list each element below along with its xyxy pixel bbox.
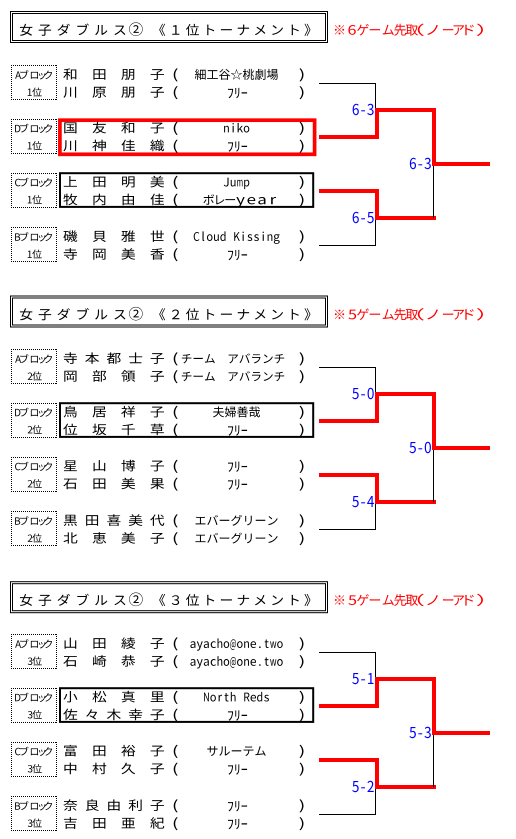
team B3 bracket line (thin): [319, 814, 376, 816]
team B1 bracket line (thin): [319, 245, 376, 247]
team B1 player names: [63, 230, 164, 259]
winner box (red) D1: [60, 120, 315, 154]
team B2 club names: [174, 514, 304, 545]
block label C3 box: [11, 742, 57, 777]
score 5-2 (semifinal 2) 3: [352, 781, 373, 792]
title text 2: [20, 307, 311, 321]
block label B1 text: [15, 232, 52, 259]
final connector 2: [432, 394, 490, 502]
block label B3 text: [15, 801, 52, 828]
semifinal 1 connector 3: [375, 653, 436, 707]
score 5-1 (semifinal 1) 3: [352, 673, 373, 684]
score 5-0 (semifinal 1) 2: [352, 388, 373, 399]
team A2 bracket line (thin): [319, 367, 376, 369]
semifinal 2 connector 1: [375, 191, 436, 246]
team D2 bracket line (red, winner): [319, 419, 379, 423]
team C3 club names: [174, 745, 304, 776]
final connector 1: [432, 110, 490, 218]
score 6-5 (semifinal 2) 1: [353, 212, 374, 223]
final connector 3: [432, 679, 490, 787]
team C3 bracket line (red, winner): [319, 758, 379, 762]
block label D3 text: [15, 693, 52, 720]
block label C1 text: [15, 178, 52, 205]
score 5-3 (final) 3: [409, 727, 430, 738]
team D3 club names: [174, 691, 304, 722]
team B2 bracket line (thin): [319, 529, 376, 531]
block label C3 text: [15, 747, 52, 774]
finalist box (black) C1: [60, 173, 313, 207]
block label D1 text: [15, 124, 52, 151]
block label B3 box: [11, 796, 57, 831]
team C2 club names: [174, 460, 304, 491]
block label D2 box: [11, 403, 57, 438]
finalist box (black) D3: [60, 688, 313, 722]
semifinal 1 connector 2: [375, 368, 436, 422]
finalist box (black) D2: [60, 403, 313, 437]
team B1 club names: [174, 230, 304, 261]
note 2: [335, 308, 483, 320]
team A1 bracket line (thin): [319, 83, 376, 85]
team C2 bracket line (red, winner): [319, 473, 379, 477]
block label B2 box: [11, 511, 57, 546]
team C3 player names: [64, 745, 164, 774]
block label A2 box: [11, 349, 57, 384]
team A2 player names: [64, 352, 164, 381]
team D1 club names: [174, 122, 304, 153]
team A1 club names: [174, 68, 304, 99]
team C2 player names: [63, 460, 164, 489]
block label C2 box: [11, 457, 57, 492]
team A2 club names: [174, 352, 304, 383]
title text 3: [20, 593, 311, 607]
block label A1 box: [11, 65, 57, 100]
team D1 player names: [63, 122, 164, 152]
block label C1 box: [11, 173, 57, 208]
block label D2 text: [15, 408, 52, 435]
score 6-3 (final) 1: [410, 158, 431, 169]
team B3 club names: [174, 799, 304, 830]
team C1 bracket line (red, winner): [319, 189, 379, 193]
block label A2 text: [15, 354, 52, 381]
team C1 club names: [174, 176, 304, 207]
score 5-4 (semifinal 2) 2: [352, 496, 374, 507]
block label C2 text: [15, 462, 52, 489]
semifinal 2 connector 3: [375, 760, 436, 815]
team D3 player names: [63, 691, 164, 720]
block label A1 text: [15, 70, 52, 97]
team D2 player names: [63, 406, 164, 435]
block label A3 text: [15, 639, 52, 666]
team A3 club names: [174, 637, 304, 668]
block label B1 box: [11, 227, 57, 262]
semifinal 2 connector 2: [375, 475, 436, 530]
title text 1: [20, 22, 311, 36]
title box 2: [11, 296, 328, 327]
semifinal 1 connector 1: [375, 84, 436, 138]
team D3 bracket line (red, winner): [319, 704, 379, 708]
block label B2 text: [15, 516, 52, 543]
note 1: [335, 24, 483, 36]
team B2 player names: [64, 514, 165, 543]
title box 3: [11, 582, 328, 613]
score 5-0 (final) 2: [409, 442, 430, 453]
team D2 club names: [174, 406, 304, 437]
team C1 player names: [63, 176, 164, 205]
team D1 bracket line (red, winner): [319, 135, 379, 139]
team A1 player names: [63, 68, 164, 97]
team A3 player names: [63, 637, 164, 666]
team A3 bracket line (thin): [319, 652, 376, 654]
score 6-3 (semifinal 1) 1: [353, 104, 374, 115]
note 3: [335, 594, 483, 606]
block label D1 box: [11, 119, 57, 154]
team B3 player names: [63, 799, 164, 829]
block label D3 box: [11, 688, 57, 723]
block label A3 box: [11, 634, 57, 669]
title box 1: [11, 12, 328, 43]
